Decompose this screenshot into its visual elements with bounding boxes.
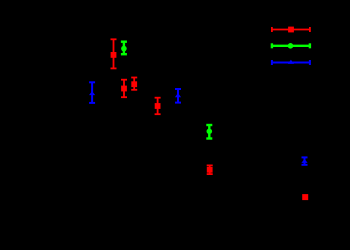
data point P6 red errorbar (155, 98, 161, 115)
legend entry 2 green sample (272, 43, 310, 49)
data point P8 green errorbar (206, 125, 212, 139)
data point P3 blue errorbar (89, 82, 95, 103)
data point P11 red marker (302, 194, 308, 200)
data point P2 green errorbar (121, 42, 127, 55)
data point P7 blue errorbar (175, 89, 181, 103)
data point P4 red errorbar (121, 80, 127, 98)
data point P1 red errorbar (111, 39, 117, 68)
data point P9 red errorbar (207, 165, 213, 174)
data point P10 blue errorbar (301, 157, 307, 164)
legend entry 1 red sample (272, 27, 310, 33)
legend entry 3 blue sample (272, 60, 310, 65)
data point P5 red errorbar (131, 78, 137, 90)
